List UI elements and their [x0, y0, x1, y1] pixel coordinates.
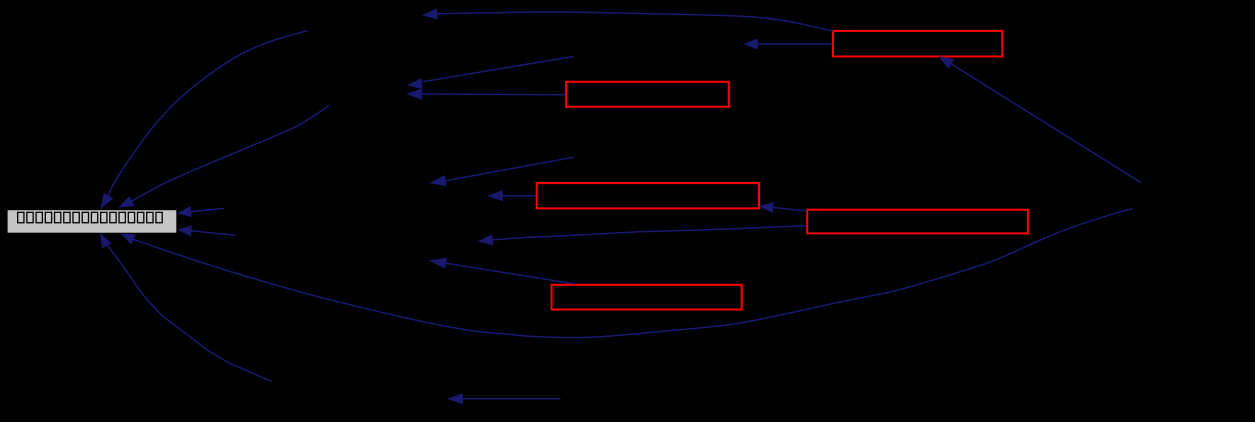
node boxE (red) — [552, 285, 742, 310]
edge node3 to boxA? arrow — [744, 39, 833, 49]
edge far-right node to root (long sweep) — [121, 209, 1132, 338]
edge bottom node to root (curve) — [101, 234, 273, 382]
edge node1 to root — [119, 106, 329, 208]
node boxB (red) — [566, 82, 729, 107]
root node label: 16 missing-glyph (tofu) characters — [18, 212, 163, 222]
edge stub2 to root — [178, 226, 235, 236]
edge stub1 to root — [178, 207, 224, 217]
edge boxE to node8 — [430, 258, 575, 284]
node boxD (red) — [807, 210, 1028, 234]
edge boxD to node4 — [478, 226, 806, 245]
node boxA (red) — [833, 31, 1002, 57]
edge node6 to node7 — [430, 157, 574, 186]
edge bottom — [448, 394, 561, 404]
edge boxA to node0 — [423, 9, 833, 31]
root node (grey filled box) — [7, 210, 177, 234]
edge boxC to node5 — [488, 191, 536, 201]
edge boxD to boxC — [760, 202, 807, 212]
edge node0 to root (curve) — [101, 31, 308, 209]
edge node2 to node1 — [408, 57, 574, 89]
node boxC (red) — [537, 183, 759, 208]
edge boxB to node1 — [407, 89, 566, 99]
edge far-right node to boxA — [939, 57, 1141, 183]
